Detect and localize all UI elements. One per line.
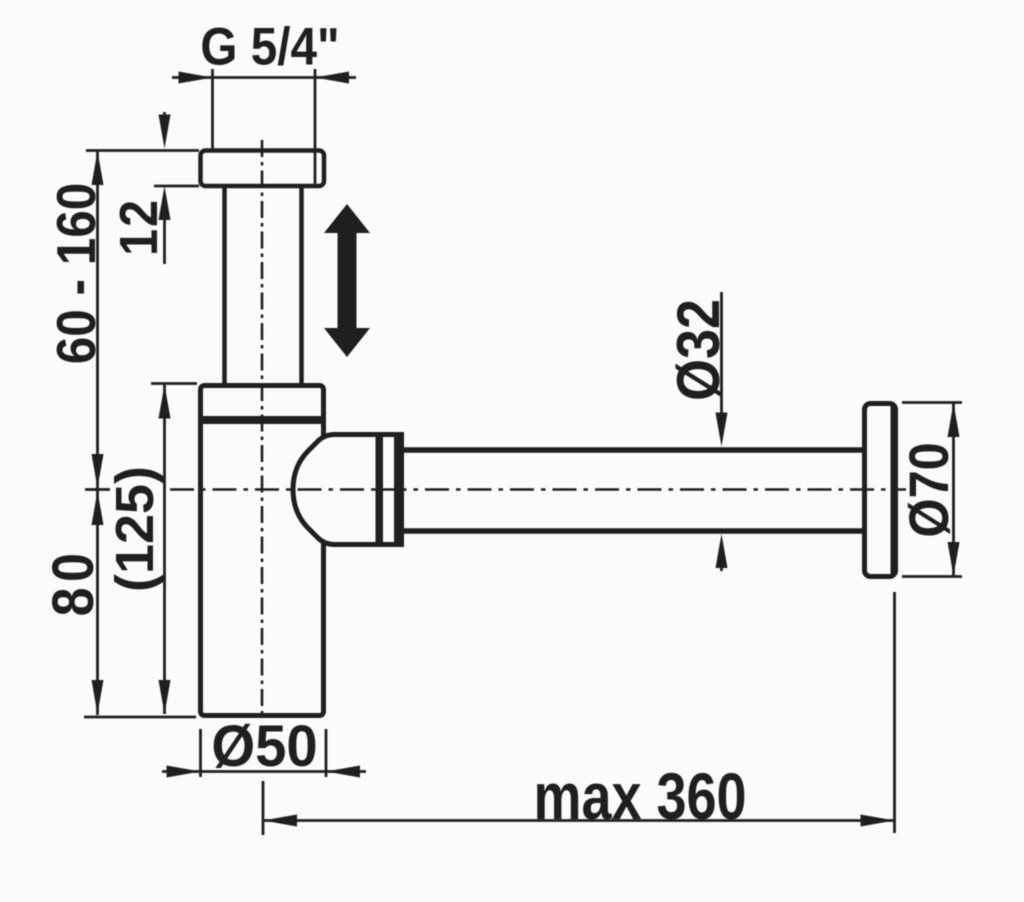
rosette inner right edge — [891, 406, 895, 574]
union nut right face band — [394, 433, 404, 547]
dimension O50 right arrow — [326, 766, 360, 778]
vertical inlet pipe left edge — [222, 188, 227, 386]
outlet elbow with union nut — [293, 435, 404, 545]
svg-text:Ø70: Ø70 — [899, 442, 961, 537]
dimension O50 line — [162, 770, 366, 773]
dimension 80 bottom arrow — [92, 680, 104, 714]
dimension max 360 line — [263, 819, 894, 822]
dimension max 360 right arrow — [861, 815, 895, 827]
extension line body bottom left — [84, 716, 196, 719]
svg-text:max 360: max 360 — [533, 759, 746, 833]
body joint dark band — [199, 416, 326, 424]
dimension 12 upper line — [163, 112, 166, 130]
O70 top extension line — [902, 401, 962, 404]
dimension max 360 left arrow — [263, 815, 297, 827]
dimension O32 upper arrow — [716, 413, 728, 447]
horizontal centerline of outlet pipe — [170, 488, 906, 491]
dimension G 5/4 right extension line — [314, 69, 317, 188]
dimension (125) line — [163, 384, 166, 714]
svg-text:80: 80 — [40, 548, 105, 617]
max 360 right extension line — [893, 592, 896, 833]
dimension 12 upper arrow — [159, 115, 171, 149]
dimension O70 top arrow — [948, 403, 960, 437]
vertical centerline of trap body — [261, 140, 264, 719]
extension line body top left — [151, 382, 197, 385]
dimension O70 bottom arrow — [948, 542, 960, 576]
top nut flange — [201, 151, 325, 187]
horizontal outlet pipe top edge — [402, 447, 864, 453]
dimension O32 lower arrow — [716, 534, 728, 568]
dimension O50 left arrow — [167, 766, 201, 778]
union nut dark band — [376, 433, 384, 546]
dimension O50 right tick — [325, 729, 328, 777]
dimension O32 upper line — [720, 292, 723, 420]
dimension O70 line — [952, 403, 955, 576]
max 360 left extension line — [262, 781, 265, 835]
svg-text:Ø50: Ø50 — [211, 714, 317, 779]
dimension 60-160 top arrow — [92, 151, 104, 185]
horizontal outlet pipe bottom edge — [402, 528, 864, 534]
O70 bottom extension line — [902, 575, 962, 578]
dimension O32 lower line — [720, 550, 723, 571]
dimension 60-160 bottom arrow — [92, 454, 104, 488]
dimension 80 top arrow — [92, 491, 104, 525]
dimension G 5/4 left arrow — [179, 72, 213, 84]
trap body — [201, 386, 324, 716]
dimension 12 lower line — [163, 210, 166, 264]
dimension 12 extension line at flange bottom — [154, 185, 199, 188]
svg-text:G 5/4": G 5/4" — [200, 16, 339, 76]
dimension G 5/4 line — [172, 76, 356, 79]
dimension O50 left tick — [199, 729, 202, 777]
vertical inlet pipe right edge — [299, 188, 304, 386]
dimension (125) bottom arrow — [159, 680, 171, 714]
height adjust double arrow — [324, 204, 370, 357]
dimension (125) top arrow — [159, 385, 171, 419]
centerline tick on dimension line — [85, 488, 110, 491]
dimension G 5/4 left extension line — [211, 69, 214, 150]
svg-text:12: 12 — [108, 198, 169, 256]
dimension 60-160/80 shared line — [96, 151, 99, 715]
wall rosette flange — [865, 404, 896, 577]
dimension G 5/4 right arrow — [315, 72, 349, 84]
svg-text:(125): (125) — [105, 466, 165, 592]
extension line flange top — [86, 149, 199, 152]
dimension 12 lower arrow — [159, 186, 171, 220]
